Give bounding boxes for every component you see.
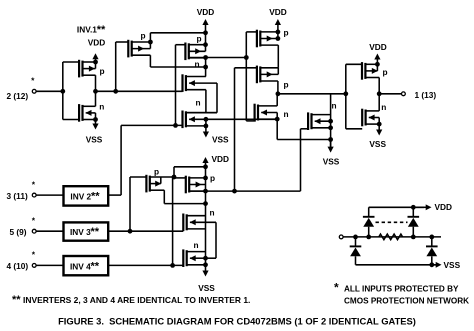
wire input 5 — [37, 230, 64, 232]
diode D3 to VSS — [350, 237, 362, 265]
node output junction — [377, 91, 382, 96]
node n#2 substrate — [204, 117, 209, 122]
svg-text:INV.1: INV.1 — [77, 24, 97, 34]
power VSS arrow n#2 — [203, 126, 209, 138]
svg-text:VSS: VSS — [444, 260, 461, 270]
svg-text:n: n — [194, 240, 199, 250]
wire n#2 substrate-source tie — [205, 119, 207, 126]
inverter box INV 4 — [64, 256, 109, 275]
label VDD right — [269, 7, 287, 17]
label pin 5 (9) — [10, 227, 27, 237]
node input INV1 gate bus — [60, 89, 65, 94]
wire node X line — [189, 57, 247, 59]
wire n INV1 substrate tie — [95, 113, 97, 120]
label VSS n#2 — [212, 135, 229, 145]
wire INV2 output riser — [120, 125, 122, 195]
node VDD rail p#5 — [203, 164, 208, 169]
node protection in D3 — [353, 235, 358, 240]
wire n#5 substrate tie — [276, 113, 278, 120]
svg-text:p: p — [383, 67, 388, 77]
svg-text:n: n — [210, 208, 215, 218]
wire INV1 gate bus — [62, 62, 64, 120]
label pin 3 (11) — [7, 191, 28, 201]
wire n#5 source down — [276, 119, 278, 139]
transistor p#5 — [130, 175, 174, 193]
node p#1 source — [148, 40, 153, 45]
wire INV3 output — [109, 230, 184, 232]
power VDD arrow protection — [413, 204, 431, 210]
wire p#4 gate bus down — [234, 68, 236, 191]
transistor n#2 — [183, 111, 218, 129]
node X right junction — [244, 55, 249, 60]
node n#2 source — [204, 124, 209, 129]
svg-text:1 (13): 1 (13) — [415, 90, 437, 100]
asterisk input 5 — [32, 216, 36, 226]
node p#5 source — [172, 175, 177, 180]
node final gate — [343, 91, 348, 96]
label n final — [381, 102, 386, 112]
asterisk input 2 — [31, 75, 35, 85]
wire input 4 — [37, 264, 64, 266]
node n final source — [377, 122, 382, 127]
node p#2 source — [203, 42, 208, 47]
wire INV1 n drain — [95, 91, 97, 106]
wire INV2 output — [109, 194, 121, 196]
wire p#3 drain to p#4 source — [277, 45, 279, 68]
label p INV1 — [100, 66, 105, 76]
diode D1 to VDD — [363, 207, 375, 237]
label n (n#8) — [194, 240, 199, 250]
label n (n#1) — [195, 59, 200, 69]
node INV4 out branch — [170, 263, 175, 268]
node INV1 output — [93, 89, 98, 94]
transistor p#3 — [246, 30, 278, 48]
inverter box INV 2 — [64, 186, 109, 205]
note inputs protected asterisk — [334, 281, 339, 295]
node n INV1 source VSS — [93, 117, 98, 122]
note inputs protected line1 — [344, 285, 459, 294]
wire p#3 substrate tie — [277, 32, 279, 39]
asterisk input 3 — [32, 180, 36, 190]
transistor n INV.1 — [63, 104, 96, 122]
wire VDD bus upper — [205, 33, 207, 45]
wire p#5 gate riser — [129, 177, 131, 231]
label p (p#5) — [154, 167, 159, 177]
label VDD top — [197, 7, 215, 17]
wire dashed distributed diode — [376, 221, 408, 223]
svg-text:**: ** — [91, 226, 100, 238]
svg-text:VSS: VSS — [369, 139, 386, 149]
transistor p INV.1 — [63, 60, 96, 78]
label VDD protection — [435, 202, 453, 212]
svg-text:p: p — [284, 80, 289, 90]
power VDD arrow top — [202, 19, 208, 33]
transistor p#6 — [173, 176, 206, 194]
svg-text:INV 3: INV 3 — [70, 227, 91, 237]
wire p#1 substrate tie — [149, 42, 151, 49]
svg-text:p: p — [154, 167, 159, 177]
wire p#1 source rail — [150, 33, 205, 42]
svg-text:VSS: VSS — [198, 283, 215, 293]
node protection in D1 — [366, 235, 371, 240]
wire riser to p#1 gate — [115, 42, 117, 91]
node n#8 source — [203, 262, 208, 267]
label p (p#1) — [141, 31, 146, 41]
diode D2 to VDD — [408, 207, 420, 237]
input terminal pin 4 (10) — [32, 264, 36, 268]
transistor n final — [362, 109, 379, 127]
wire p final substrate tie — [376, 64, 378, 71]
node p final source — [375, 62, 380, 67]
input terminal pin 3 (11) — [32, 193, 36, 197]
node n#6 substrate — [328, 119, 333, 124]
label pin 1 (13) — [415, 90, 437, 100]
svg-text:n: n — [284, 109, 289, 119]
power VDD arrow right — [275, 19, 281, 32]
node p#3 substrate — [276, 36, 281, 41]
transistor n#5 — [255, 104, 278, 122]
svg-text:p: p — [284, 28, 289, 38]
wire internal node line — [206, 118, 277, 120]
transistor p#4 — [235, 66, 279, 84]
label INV 2** — [70, 190, 100, 202]
note inputs protected line2 — [344, 297, 469, 306]
svg-text:p: p — [197, 34, 202, 44]
svg-text:VDD: VDD — [269, 7, 287, 17]
node Y junction — [276, 91, 281, 96]
label VDD INV1 — [88, 38, 106, 48]
transistor n#6 — [308, 112, 331, 130]
wire n#7 substrate route — [206, 222, 217, 258]
label pin 4 (10) — [7, 261, 29, 271]
power VSS arrow n#6 — [328, 140, 334, 153]
wire protection input line — [343, 236, 441, 238]
node X junction — [203, 55, 208, 60]
wire n#6 gate bus down — [300, 129, 302, 191]
svg-text:VDD: VDD — [435, 202, 453, 212]
node lower line VDD bus — [203, 189, 208, 194]
label INV.1** — [77, 24, 106, 36]
label VSS final — [369, 139, 386, 149]
wire INV4 output — [109, 264, 184, 266]
node n#8 substrate — [203, 256, 208, 261]
label p (p#3) — [284, 28, 289, 38]
protection input terminal — [339, 235, 343, 239]
power VDD arrow INV1 — [92, 53, 98, 62]
wire n final substrate tie — [378, 118, 380, 125]
label p final — [383, 67, 388, 77]
caption figure 3 — [58, 316, 416, 327]
wire p#2 substrate tie — [205, 45, 207, 52]
svg-text:VDD: VDD — [212, 154, 230, 164]
node protection in D4 — [429, 235, 434, 240]
transistor p final — [362, 62, 379, 80]
label p (p#6) — [210, 173, 215, 183]
label INV 3** — [70, 226, 100, 238]
wire riser to p#2 gate — [175, 45, 177, 126]
label n (n#5) — [284, 109, 289, 119]
svg-text:n: n — [99, 102, 104, 112]
wire p#4 drain down — [277, 81, 279, 94]
svg-text:2 (12): 2 (12) — [7, 91, 29, 101]
wire n#5 source right — [277, 139, 330, 141]
transistor n#7 — [183, 214, 216, 232]
label VSS lower — [198, 283, 215, 293]
asterisk input 4 — [32, 249, 36, 259]
note inverters identical — [12, 294, 250, 306]
power VDD arrow final — [374, 54, 380, 65]
svg-text:CMOS PROTECTION NETWORK: CMOS PROTECTION NETWORK — [344, 297, 469, 306]
wire n#1 source down — [205, 90, 207, 113]
svg-text:*: * — [32, 249, 36, 259]
label n (n#6) — [332, 101, 337, 111]
wire INV4 riser — [172, 178, 174, 266]
svg-text:FIGURE 3. SCHEMATIC DIAGRAM F: FIGURE 3. SCHEMATIC DIAGRAM FOR CD4072BM… — [58, 316, 416, 327]
wire final gate bus — [345, 64, 347, 129]
svg-text:VSS: VSS — [323, 156, 340, 166]
power VSS arrow lower — [202, 265, 208, 277]
node INV1 out branch — [113, 89, 118, 94]
svg-text:*: * — [31, 75, 35, 85]
label p (p#4) — [284, 80, 289, 90]
label n (n#2) — [196, 98, 201, 108]
wire p#1 drain route — [150, 55, 205, 67]
label n INV1 — [99, 102, 104, 112]
wire p#4 substrate tie — [277, 68, 279, 75]
wire node Y line — [278, 93, 346, 95]
wire p#3/n#5 gate bus — [245, 32, 247, 121]
label pin 2 (12) — [7, 91, 29, 101]
wire p#5 source rail — [174, 167, 206, 177]
input terminal pin 5 (9) — [32, 229, 36, 233]
node lower line p#4 gate — [232, 189, 237, 194]
wire p#5 drain route — [164, 190, 205, 203]
node p#6 source — [203, 176, 208, 181]
label p (p#2) — [197, 34, 202, 44]
wire n#6 drain bus — [330, 94, 332, 147]
wire p final drain — [378, 78, 380, 94]
node INV2 feed branch — [173, 123, 178, 128]
wire p INV1 substrate tie — [95, 62, 97, 69]
svg-text:**: ** — [12, 294, 21, 306]
svg-text:n: n — [381, 102, 386, 112]
diode D4 to VSS — [426, 237, 438, 265]
transistor n#1 — [183, 74, 218, 92]
power VSS arrow INV1 — [92, 120, 98, 130]
node p#3 source VDD — [276, 30, 281, 35]
wire protection VDD line — [369, 206, 424, 208]
wire output line — [379, 93, 401, 95]
output terminal pin 1 (13) — [402, 92, 406, 96]
svg-text:VSS: VSS — [86, 135, 103, 145]
svg-text:4 (10): 4 (10) — [7, 261, 29, 271]
node protection in D2 — [411, 235, 416, 240]
label VSS n#6 — [323, 156, 340, 166]
svg-text:n: n — [195, 59, 200, 69]
node lower 203 junction — [203, 201, 208, 206]
svg-text:VSS: VSS — [212, 135, 229, 145]
inverter box INV 3 — [64, 222, 109, 240]
resistor protection — [379, 234, 403, 240]
svg-text:**: ** — [91, 260, 100, 272]
svg-text:*: * — [334, 281, 339, 295]
node p INV1 source VDD — [93, 60, 98, 65]
svg-text:p: p — [100, 66, 105, 76]
svg-text:p: p — [141, 31, 146, 41]
svg-text:*: * — [32, 216, 36, 226]
svg-text:5 (9): 5 (9) — [10, 227, 27, 237]
power VDD arrow lower — [202, 157, 208, 167]
wire lower VDD/VSS bus — [205, 167, 207, 265]
transistor n#8 — [183, 249, 205, 267]
label VSS protection — [444, 260, 461, 270]
node INV3 out branch — [128, 229, 133, 234]
node n#6 source — [328, 125, 333, 130]
svg-text:**: ** — [91, 190, 100, 202]
wire p#5 substrate tie — [160, 177, 162, 184]
wire final p gate lead — [346, 63, 362, 65]
wire input 2 to gate bus — [37, 90, 63, 92]
node n#5 source — [275, 117, 280, 122]
label INV 4** — [70, 260, 100, 272]
wire n#6 gate lead — [301, 128, 309, 130]
wire INV1 p drain — [95, 75, 97, 91]
label n (n#7) — [210, 208, 215, 218]
svg-text:*: * — [32, 180, 36, 190]
svg-text:INV 4: INV 4 — [70, 261, 91, 271]
wire n#1/n#2 link — [186, 112, 217, 114]
node protection VDD D2 — [411, 205, 416, 210]
wire n#1 substrate riser — [216, 83, 218, 113]
svg-text:n: n — [332, 101, 337, 111]
svg-text:p: p — [210, 173, 215, 183]
wire lower node line — [189, 190, 300, 192]
power VSS arrow final — [376, 124, 382, 135]
input terminal pin 2 (12) — [32, 89, 36, 93]
wire input 3 — [37, 194, 64, 196]
svg-text:n: n — [196, 98, 201, 108]
wire INV1 output line — [96, 90, 183, 92]
transistor p#2 — [176, 43, 206, 61]
node protection VSS D4 — [429, 262, 434, 267]
wire final n gate U — [346, 128, 362, 130]
wire INV2 feed line — [121, 124, 182, 126]
wire n final drain up — [378, 94, 380, 111]
node VDD rail top — [203, 30, 208, 35]
svg-text:INVERTERS 2, 3 AND 4 ARE IDENT: INVERTERS 2, 3 AND 4 ARE IDENTICAL TO IN… — [23, 295, 250, 305]
svg-text:3 (11): 3 (11) — [7, 191, 28, 201]
wire node X down chain — [205, 58, 207, 77]
wire n#5 gate U — [246, 120, 255, 122]
svg-text:VDD: VDD — [369, 42, 387, 52]
wire n#5 drain up — [276, 94, 278, 106]
label VDD lower — [212, 154, 230, 164]
power VSS arrow protection — [432, 262, 442, 268]
transistor p#1 — [116, 40, 151, 58]
label VSS INV1 — [86, 135, 103, 145]
label VDD final — [369, 42, 387, 52]
svg-text:ALL INPUTS PROTECTED BY: ALL INPUTS PROTECTED BY — [344, 285, 459, 294]
wire protection VSS line — [356, 264, 438, 266]
svg-text:VDD: VDD — [197, 7, 215, 17]
svg-text:VDD: VDD — [88, 38, 106, 48]
node X to p#1 drain — [203, 65, 208, 70]
node n#6 VSS branch — [328, 137, 333, 142]
svg-text:INV 2: INV 2 — [70, 191, 91, 201]
svg-text:**: ** — [97, 24, 106, 36]
